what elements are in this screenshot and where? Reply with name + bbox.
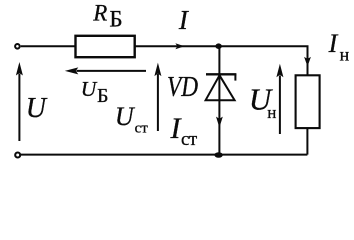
svg-text:U: U [26,93,48,124]
voltage arrow U [16,62,23,141]
zener diode VD anode triangle [206,75,235,100]
wire: top rail from node A to right corner, down to load [219,46,308,75]
label Iн [328,29,350,64]
load resistor Rн [296,75,320,128]
wire: bottom rail [21,154,308,156]
label RБ [92,0,122,31]
svg-text:н: н [340,44,350,64]
voltage arrow Uст [154,63,161,131]
current arrow I on top rail [175,43,184,49]
terminal: input top-left [15,44,20,49]
label Uн [249,82,277,123]
junction: node A (top) [215,43,221,49]
wire: zener branch vertical [218,46,220,154]
terminal: input bottom-left [15,153,20,158]
current arrow Iн on load branch [304,57,311,67]
svg-text:U: U [115,102,136,131]
svg-text:ст: ст [135,121,149,137]
wire: top rail from resistor to node A [135,45,219,47]
voltage arrow Uн [276,64,283,134]
label Uст [115,102,148,137]
svg-text:ст: ст [181,129,198,150]
current arrow Iст on zener branch [216,117,223,128]
svg-text:н: н [267,103,276,122]
zener diode VD cathode bar [206,73,236,75]
resistor RБ [76,36,135,57]
svg-text:Б: Б [109,7,122,32]
svg-text:Б: Б [97,85,108,107]
svg-text:I: I [328,29,339,58]
voltage arrow UБ [65,67,146,74]
junction: node B (bottom) [214,152,222,158]
label UБ [81,77,109,107]
label Iст [170,112,198,150]
svg-text:VD: VD [167,72,198,103]
svg-text:I: I [178,5,190,35]
svg-text:U: U [81,77,98,101]
svg-text:R: R [92,0,107,25]
zener diode VD cathode hook [234,74,236,80]
wire: from load resistor bottom to bottom rail [306,128,308,155]
wire: top rail from input terminal to resistor [21,45,76,47]
